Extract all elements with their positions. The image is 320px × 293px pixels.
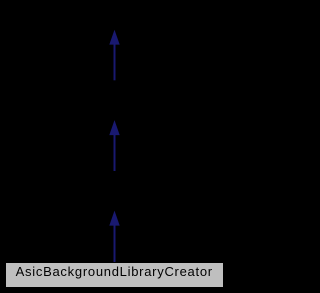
node label AsicBackgroundLibraryCreator	[0, 265, 229, 278]
node AsicBackgroundLibraryCreator	[5, 262, 225, 288]
wire arrow 2 (middle inheritance edge)	[109, 120, 119, 171]
inheritance arrows	[0, 0, 229, 293]
wire arrow 1 (top inheritance edge)	[109, 30, 119, 81]
wire arrow 3 (bottom inheritance edge)	[109, 211, 119, 263]
